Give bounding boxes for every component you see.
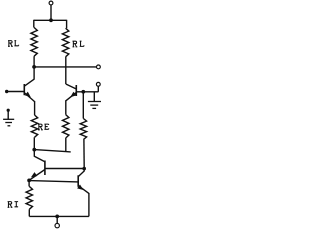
node: Q2 base / R3 junction xyxy=(81,90,85,94)
wire: RI bottom lead xyxy=(28,209,30,216)
node B (tail node) xyxy=(32,148,36,152)
node D (Q3 emitter / RI top) xyxy=(27,179,31,183)
ground (right) xyxy=(93,92,95,102)
resistor R2 (right emitter) xyxy=(63,115,69,138)
resistor RI xyxy=(26,186,32,209)
wire: top rail xyxy=(34,19,67,21)
terminal T4 (bottom) xyxy=(55,223,59,227)
wire: left RL top lead xyxy=(33,20,35,28)
label RL (left) xyxy=(8,41,13,47)
resistor RL (right) xyxy=(62,28,68,57)
wire: left RL bottom lead xyxy=(33,56,35,67)
wire: T3 stem xyxy=(97,86,99,92)
transistor Q4 (mirror, right) xyxy=(77,175,79,187)
terminal T3 (right input) xyxy=(96,82,100,86)
label RE xyxy=(38,124,43,130)
wire: bottom terminal stub xyxy=(56,216,58,223)
wire: right RL bottom lead / Q2 collector column xyxy=(65,57,67,84)
node: top rail junction xyxy=(49,18,53,22)
node E (bottom stub junction) xyxy=(55,215,59,219)
wire: R3 top lead xyxy=(82,92,84,119)
wire: RI top lead xyxy=(28,180,30,186)
ground (left) xyxy=(7,109,10,112)
wire: Q2 base lead xyxy=(76,91,98,93)
transistor Q2 (right of diff pair) xyxy=(75,85,77,96)
resistor RL (left) xyxy=(31,28,37,57)
transistor Q1 (left of diff pair) xyxy=(23,84,25,95)
wire: tail rail to R2 bottom xyxy=(34,150,70,152)
wire: Q3 emitter to Q4 base xyxy=(29,181,78,182)
wire: output rail xyxy=(34,66,97,68)
terminal T2 (output, right) xyxy=(97,65,101,69)
resistor RE xyxy=(31,115,37,137)
wire: Q2 emitter to R2 xyxy=(65,101,67,115)
terminal dot (left input) xyxy=(5,90,8,93)
node C (mirror node) xyxy=(82,167,86,171)
wire: right RL top lead xyxy=(66,20,68,28)
wire: Q4 emitter column xyxy=(88,193,90,216)
wire: RE bottom lead xyxy=(33,137,35,149)
wire: Q1 base lead xyxy=(7,91,25,93)
wire: bottom rail xyxy=(29,215,89,217)
label RL (right) xyxy=(73,41,78,47)
wire: Q1 emitter to RE xyxy=(34,101,36,115)
wire: R3 bottom to mirror node xyxy=(83,140,85,169)
wire: R2 bottom lead xyxy=(65,138,67,152)
terminal T1 (top supply) xyxy=(49,1,53,5)
label RI xyxy=(8,202,13,208)
wire: T1 stem xyxy=(50,5,52,20)
wire: mirror base rail xyxy=(45,168,84,170)
transistor Q3 (mirror, left) xyxy=(44,161,46,176)
node A (left collector / output tap) xyxy=(32,65,36,69)
resistor R3 xyxy=(80,119,86,140)
